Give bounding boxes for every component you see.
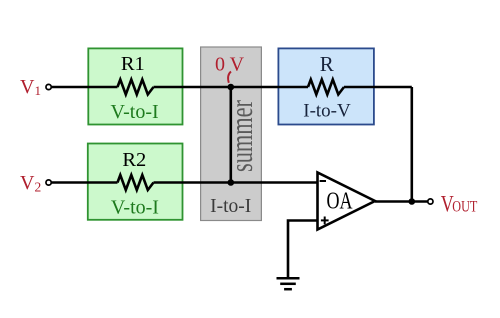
V-to-I stage box (R2) <box>88 144 183 220</box>
svg-text:I-to-I: I-to-I <box>210 196 251 217</box>
wire V1 to R1 <box>52 86 118 89</box>
wire R2 to op-amp inverting input <box>154 181 318 184</box>
resistor R <box>308 80 344 95</box>
wire V2 to R2 <box>52 181 118 184</box>
svg-text:I-to-V: I-to-V <box>303 100 351 121</box>
svg-text:V-to-I: V-to-I <box>111 101 159 123</box>
I-to-V stage box (R) <box>278 48 374 124</box>
summer vertical wire <box>230 87 233 183</box>
ground <box>277 277 300 280</box>
feedback wire down <box>410 87 413 202</box>
svg-text:R1: R1 <box>121 53 145 75</box>
terminal VOUT <box>428 199 433 204</box>
virtual-ground arc mark <box>228 72 231 83</box>
summing node junction (top) <box>228 84 235 91</box>
summing node junction (bottom) <box>228 179 235 186</box>
svg-text:R2: R2 <box>122 149 146 171</box>
terminal V2 <box>46 180 51 185</box>
summer box <box>201 47 262 221</box>
svg-text:R: R <box>320 52 334 76</box>
terminal V1 <box>46 84 51 89</box>
svg-text:OA: OA <box>327 188 353 215</box>
op-amp plus sign <box>321 219 329 221</box>
svg-text:OUT: OUT <box>452 198 477 215</box>
V-to-I stage box (R1) <box>88 48 182 124</box>
wire R1 to R (through summing node) <box>154 86 309 89</box>
svg-text:V-to-I: V-to-I <box>111 196 159 218</box>
output junction <box>409 198 416 205</box>
resistor R2 <box>118 175 154 190</box>
resistor R1 <box>118 80 154 95</box>
op-amp minus sign <box>320 180 326 182</box>
wire R to feedback corner <box>344 86 412 89</box>
non-inverting input wire <box>288 221 318 278</box>
op-amp OA <box>318 173 376 230</box>
op-amp output wire <box>375 200 428 203</box>
svg-text:summer: summer <box>223 100 259 172</box>
